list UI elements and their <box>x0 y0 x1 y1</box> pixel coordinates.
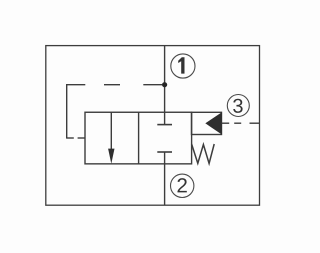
position divider <box>138 112 140 164</box>
spring (W zigzag, right side) <box>192 144 215 164</box>
valve body (two position boxes) <box>85 112 192 164</box>
port 3 numeral <box>233 99 242 113</box>
port 2 numeral <box>177 178 186 192</box>
wire: port 2 line (blocked stub through bottom border) <box>164 152 166 205</box>
flow arrow (open position, left box) <box>108 112 114 164</box>
valve envelope (outer boundary rectangle) <box>46 46 260 206</box>
blocked port symbol, bottom (right box) <box>157 151 172 153</box>
port 3 label circle <box>227 95 249 117</box>
pilot actuator box (right of valve) <box>192 112 222 134</box>
pilot line vertical (left side, solid) <box>66 84 68 138</box>
pilot line dashed horizontal (dot to left corner) <box>66 84 162 86</box>
pilot pressure triangle (solid, points left) <box>206 113 221 134</box>
wire: port 1 supply line (top border to blocked-port stub) <box>164 46 166 125</box>
junction dot (pilot tap on port 1 line) <box>162 82 167 87</box>
blocked port symbol, top (right box) <box>157 124 172 126</box>
port 1 label circle <box>171 54 195 78</box>
pilot line dashed (triangle to right border, port 3) <box>222 122 260 124</box>
port 2 label circle <box>171 174 194 197</box>
port 1 numeral <box>178 57 184 73</box>
pilot line dashed bottom (corner to valve left edge) <box>66 137 85 139</box>
